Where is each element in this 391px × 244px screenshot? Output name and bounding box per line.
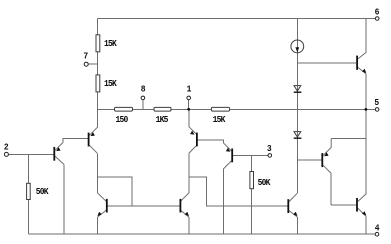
- svg-text:4: 4: [375, 223, 380, 234]
- svg-text:3: 3: [267, 143, 272, 154]
- transistor Q5 base bar: [196, 133, 198, 147]
- wire Q2 collector vertical down: [96, 153, 98, 193]
- svg-text:7: 7: [83, 51, 88, 62]
- wire long bus to pin5: [97, 108, 375, 110]
- junction dot pin5 node: [365, 108, 368, 111]
- wire Q2 emitter diagonal: [89, 127, 97, 135]
- wire Q9 base from diode chain: [297, 159, 321, 161]
- wire pin5 node down to Q10 collector: [365, 109, 367, 194]
- diode D1 cathode bar: [294, 91, 302, 93]
- wire Q1 emitter jog and horizontal to Q2 base: [63, 139, 88, 143]
- svg-text:15K: 15K: [104, 79, 118, 90]
- pin 5 terminal circle: [375, 108, 379, 112]
- transistor Q1 emitter arrow PNP: [56, 147, 60, 151]
- svg-text:1: 1: [187, 84, 192, 95]
- svg-text:8: 8: [141, 84, 146, 95]
- transistor Q2 base bar: [88, 133, 90, 147]
- svg-text:5: 5: [374, 98, 379, 109]
- wire Q7 emitter down to rail: [296, 217, 298, 234]
- diode D2 cathode bar: [294, 137, 302, 139]
- resistor R1 15K top left: [96, 35, 100, 52]
- transistor Q9 emitter arrow PNP: [324, 152, 328, 156]
- wire Q10 emitter down to rail: [365, 216, 367, 234]
- wire Q8 collector up to rail: [365, 18, 367, 52]
- wire 50K R6 branch down to bottom rail: [27, 154, 29, 234]
- transistor Q7 base bar: [287, 199, 289, 213]
- transistor Q4 emitter arrow NPN: [185, 212, 189, 216]
- wire Q5 collector branch to Q7 base: [189, 177, 288, 206]
- wire pin2 to Q1 base: [8, 153, 54, 155]
- pin 4 terminal circle: [375, 232, 379, 236]
- wire Q5 emitter diagonal: [189, 127, 196, 134]
- wire Q1 emitter diagonal: [55, 143, 63, 151]
- transistor Q5 emitter arrow PNP: [190, 131, 194, 135]
- current source I1 circle: [291, 40, 304, 53]
- wire Q5 collector down to Q4 collector: [188, 153, 190, 193]
- transistor Q8 base bar: [356, 56, 358, 70]
- wire Q4 collector diagonal: [181, 193, 189, 201]
- svg-text:15K: 15K: [104, 38, 118, 49]
- resistor R7 50K right: [250, 172, 254, 189]
- wire Q10 emitter diagonal: [358, 208, 366, 216]
- wire Q9 emitter horizontal to right vertical: [331, 138, 366, 140]
- svg-text:15K: 15K: [213, 115, 227, 126]
- transistor Q3 base bar: [106, 199, 108, 213]
- transistor Q10 base bar: [356, 198, 358, 212]
- wire Q5 collector diagonal: [189, 146, 196, 154]
- wire Q4 emitter down to rail: [188, 217, 190, 234]
- transistor Q8 emitter arrow NPN: [362, 69, 366, 73]
- svg-text:50K: 50K: [36, 187, 50, 198]
- pin 7 terminal circle: [84, 62, 88, 66]
- wire Q3 collector diagonal: [98, 193, 106, 201]
- pin 1 terminal circle: [187, 96, 191, 100]
- svg-text:6: 6: [375, 7, 380, 18]
- wire Q9 collector to Q10 base horizontal: [331, 204, 356, 206]
- diode D1 triangle: [294, 86, 301, 91]
- wire left vertical from rail through R1 R2 to bus: [96, 18, 98, 127]
- wire Q6 collector down to rail: [222, 169, 224, 234]
- wire Q9 collector down to Q10 base: [330, 173, 332, 205]
- wire Q3 base to Q4 base: [108, 205, 180, 207]
- junction dot pin1 node: [187, 108, 190, 111]
- diode D2 triangle: [294, 132, 301, 137]
- wire Q2 collector branch to mirror bases: [97, 177, 131, 206]
- transistor Q9 base bar: [321, 153, 323, 167]
- svg-text:1K5: 1K5: [156, 115, 169, 126]
- wire top rail V+: [97, 17, 375, 19]
- wire Q8 emitter down to pin5 node: [365, 74, 367, 109]
- wire Q6 base to pin3: [233, 154, 268, 156]
- wire Q8 emitter diagonal: [358, 67, 366, 74]
- wire 50K R7 branch down to rail: [251, 155, 253, 234]
- wire Q8 collector diagonal: [358, 52, 366, 59]
- wire bottom rail V-: [28, 233, 375, 235]
- transistor Q2 emitter arrow PNP: [91, 132, 95, 136]
- wire right vertical rail to current source diodes Q7 collector: [296, 18, 298, 193]
- transistor Q6 base bar: [231, 149, 233, 163]
- pin 6 terminal circle: [375, 17, 379, 21]
- transistor Q1 base bar: [53, 147, 55, 161]
- wire Q4 emitter diagonal: [181, 210, 189, 217]
- wire Q6 emitter diagonal: [223, 143, 231, 151]
- wire Q3 emitter diagonal: [98, 210, 106, 217]
- resistor R2 15K second: [96, 75, 100, 92]
- wire pin1 node down to Q5 emitter: [188, 109, 190, 127]
- wire Q6 collector diagonal: [223, 161, 231, 169]
- pin 3 terminal circle: [268, 154, 272, 158]
- wire Q5 base to Q6 emitter: [198, 140, 224, 143]
- wire Q1 collector diagonal: [55, 156, 64, 164]
- wire Q7 collector diagonal: [289, 193, 297, 201]
- transistor Q3 emitter arrow NPN: [97, 212, 101, 216]
- resistor R5 15K on bus: [211, 107, 229, 111]
- resistor R6 50K left: [27, 183, 31, 199]
- wire Q7 emitter diagonal: [289, 211, 297, 217]
- pin 8 terminal circle: [141, 96, 145, 100]
- wire pin1 stem: [188, 100, 190, 110]
- wire pin7 to left vertical: [88, 63, 97, 65]
- transistor Q7 emitter arrow NPN: [293, 212, 297, 216]
- wire Q1 collector down to bottom rail: [63, 164, 65, 234]
- svg-text:50K: 50K: [258, 178, 272, 189]
- transistor Q4 base bar: [179, 199, 181, 213]
- resistor R4 1K5: [154, 107, 171, 111]
- wire pin8 stem: [142, 100, 144, 110]
- wire Q3 emitter down to rail: [97, 217, 99, 234]
- transistor Q6 emitter arrow PNP: [226, 148, 230, 152]
- current source I1 arrow: [295, 47, 299, 52]
- wire Q9 collector diagonal: [323, 165, 331, 173]
- wire Q8 base from right vertical: [297, 62, 356, 64]
- wire Q10 collector diagonal: [358, 194, 366, 202]
- pin 2 terminal circle: [4, 152, 8, 156]
- resistor R3 150: [115, 107, 133, 111]
- transistor Q10 emitter arrow NPN: [362, 211, 366, 215]
- wire Q9 emitter diagonal and jog: [323, 139, 331, 156]
- wire Q2 collector diagonal: [89, 145, 97, 153]
- svg-text:150: 150: [116, 115, 129, 126]
- svg-text:2: 2: [4, 142, 9, 153]
